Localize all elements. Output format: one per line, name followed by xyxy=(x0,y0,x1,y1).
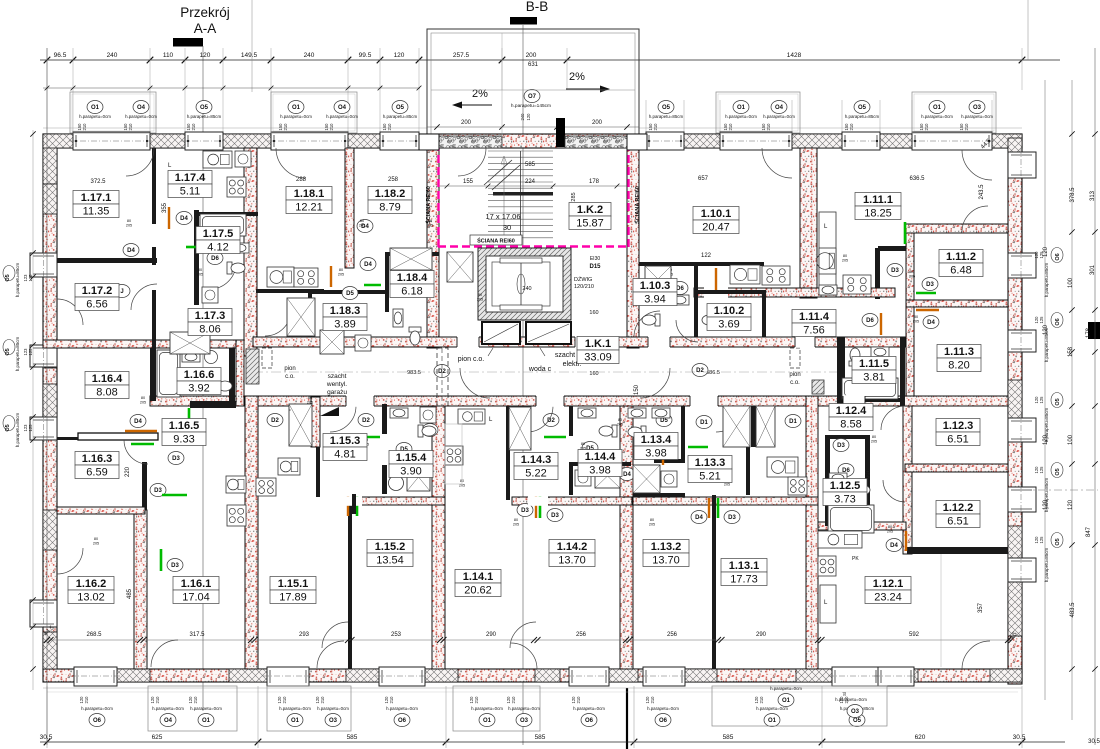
svg-text:293: 293 xyxy=(299,632,310,638)
partition 1.12.5 west xyxy=(825,435,830,526)
door mark green xyxy=(162,494,187,497)
door label D2 xyxy=(434,365,450,378)
svg-text:5.22: 5.22 xyxy=(525,468,546,480)
elevator car xyxy=(486,256,563,312)
svg-text:200: 200 xyxy=(526,52,537,59)
svg-text:8.08: 8.08 xyxy=(96,387,117,399)
wall between 1.11.1 and 1.11.2 xyxy=(906,228,914,406)
exterior bottom wall xyxy=(43,669,1022,682)
svg-text:h.parapetu=85cm: h.parapetu=85cm xyxy=(383,114,418,119)
room label 1.17.1 xyxy=(73,191,119,218)
svg-text:B-B: B-B xyxy=(526,0,549,14)
svg-text:4.81: 4.81 xyxy=(334,449,355,461)
room label 1.14.1 xyxy=(455,570,501,597)
door label D2 xyxy=(692,364,708,377)
door mark green xyxy=(688,446,708,449)
room label 1.18.2 xyxy=(368,187,412,214)
svg-text:125: 125 xyxy=(28,424,33,432)
svg-text:A-A: A-A xyxy=(194,21,217,36)
svg-text:205: 205 xyxy=(140,401,146,405)
room label 1.10.3 xyxy=(633,279,677,306)
svg-text:357: 357 xyxy=(978,602,984,613)
svg-text:h.parapetu=0cm: h.parapetu=0cm xyxy=(190,706,222,711)
svg-text:1.11.2: 1.11.2 xyxy=(946,251,976,263)
svg-text:120: 120 xyxy=(394,52,405,59)
partition 1.11 kitchen jog h xyxy=(878,246,909,251)
door label J xyxy=(114,285,130,298)
svg-text:125: 125 xyxy=(28,274,33,282)
svg-text:210: 210 xyxy=(155,696,160,704)
svg-text:O1: O1 xyxy=(202,718,211,724)
svg-text:5.11: 5.11 xyxy=(180,186,201,198)
room label 1.12.2 xyxy=(936,501,980,528)
partition 1.15.3 east lower xyxy=(382,465,387,494)
svg-text:257.5: 257.5 xyxy=(453,52,470,59)
svg-text:17.73: 17.73 xyxy=(730,574,758,586)
door arc 5 xyxy=(57,299,83,325)
door arc 1 xyxy=(276,148,306,178)
svg-text:6.59: 6.59 xyxy=(86,467,107,479)
wall wall above 1.16.2 xyxy=(57,507,145,514)
room label 1.14.4 xyxy=(578,450,622,477)
svg-text:205: 205 xyxy=(359,224,365,228)
svg-text:12.21: 12.21 xyxy=(295,202,323,214)
svg-text:1.17.4: 1.17.4 xyxy=(175,172,206,184)
svg-text:6.51: 6.51 xyxy=(947,516,968,528)
svg-text:4.12: 4.12 xyxy=(207,242,228,254)
svg-text:657: 657 xyxy=(698,176,709,182)
partition 1.18.1 south xyxy=(256,289,324,293)
entry door leaf 1.15 xyxy=(320,407,339,416)
svg-text:120/210: 120/210 xyxy=(574,284,594,290)
door arc 12 xyxy=(330,406,356,432)
wall wall above 1.12.1 left xyxy=(818,522,906,530)
svg-text:J: J xyxy=(120,289,123,295)
door mark green xyxy=(916,292,936,295)
door arc 13 xyxy=(151,640,178,667)
pion co dashed small left xyxy=(262,348,272,368)
wall between 1.16.2 and 1.16.1 xyxy=(134,510,147,669)
svg-text:1.13.4: 1.13.4 xyxy=(641,434,672,446)
sill lines below bottom wall xyxy=(43,687,1022,689)
partition 1.16.3 east zig xyxy=(142,462,147,510)
partition 1.10.2 north xyxy=(698,290,762,294)
svg-text:O7: O7 xyxy=(528,94,537,100)
door gap wall above 1.15.2 xyxy=(344,496,362,506)
svg-text:1.12.4: 1.12.4 xyxy=(836,405,867,417)
corridor top wall door gaps xyxy=(457,336,479,348)
partition 1.14.3 east upper xyxy=(569,406,573,436)
kitchen 1.10.1 xyxy=(730,265,760,284)
svg-text:D4: D4 xyxy=(127,248,135,254)
svg-text:EI30: EI30 xyxy=(590,256,601,262)
room label 1.13.1 xyxy=(721,559,767,586)
window left O5 2 xyxy=(30,345,57,367)
svg-text:983.5: 983.5 xyxy=(407,370,421,376)
wall between 1.12.5 and 1.12.3 xyxy=(903,406,912,554)
svg-text:205: 205 xyxy=(871,440,877,444)
partition door jamb 1.15.2 xyxy=(352,494,356,514)
corridor center dash line xyxy=(253,371,837,373)
svg-text:1.13.1: 1.13.1 xyxy=(729,560,760,572)
entry door leaf pion 1.12 xyxy=(812,380,824,394)
svg-text:pion: pion xyxy=(789,372,800,378)
svg-text:pion c.o.: pion c.o. xyxy=(458,356,485,363)
svg-text:h.parapetu=85cm: h.parapetu=85cm xyxy=(1044,548,1049,583)
section marker right xyxy=(1088,322,1100,339)
svg-text:1.15.4: 1.15.4 xyxy=(396,452,427,464)
svg-text:3.81: 3.81 xyxy=(863,372,884,384)
window labels bottom right pair xyxy=(712,686,887,726)
svg-text:80: 80 xyxy=(478,293,482,297)
door label D3 xyxy=(167,559,183,572)
room label 1.12.4 xyxy=(829,404,873,431)
shower stair hall xyxy=(447,252,473,282)
room label 1.11.1 xyxy=(855,193,901,220)
bath 1.16.4 xyxy=(157,350,180,397)
svg-text:80: 80 xyxy=(843,254,847,258)
svg-text:O5: O5 xyxy=(1055,398,1061,405)
svg-text:210: 210 xyxy=(728,123,733,131)
door label D4 xyxy=(360,258,376,271)
room label 1.11.2 xyxy=(939,250,983,277)
svg-text:18.25: 18.25 xyxy=(864,208,892,220)
svg-text:1.16.1: 1.16.1 xyxy=(181,578,212,590)
svg-text:210: 210 xyxy=(191,123,196,131)
svg-text:80: 80 xyxy=(127,219,131,223)
svg-text:D5: D5 xyxy=(346,291,354,297)
svg-text:1.18.2: 1.18.2 xyxy=(375,188,406,200)
terrace outline xyxy=(427,29,639,136)
wall pier 1.15 entry xyxy=(311,397,320,447)
partition 1.13.1 entry wall xyxy=(751,406,756,447)
svg-text:1.14.3: 1.14.3 xyxy=(521,454,552,466)
svg-text:125: 125 xyxy=(1039,251,1044,259)
room label 1.18.1 xyxy=(286,187,332,214)
svg-text:szacht: szacht xyxy=(328,373,347,380)
partition 1.18.4 west xyxy=(385,252,389,312)
sill lines above top wall xyxy=(43,127,427,129)
window O1/O4 top 2 xyxy=(271,132,348,150)
right window label O6 xyxy=(1051,248,1063,263)
right window label O5 xyxy=(1051,393,1063,408)
door label D4 xyxy=(849,504,865,517)
svg-text:13.02: 13.02 xyxy=(77,592,105,604)
axis dashdot right xyxy=(1022,489,1098,491)
svg-text:125: 125 xyxy=(1039,536,1044,544)
window labels top right O5 xyxy=(658,101,674,114)
svg-text:O6: O6 xyxy=(659,718,668,724)
room label 1.17.2 xyxy=(75,284,119,311)
stair landing bar xyxy=(493,192,553,196)
partition 1.15.1 east xyxy=(348,500,352,669)
svg-text:483.5: 483.5 xyxy=(1070,602,1076,618)
svg-text:13.54: 13.54 xyxy=(376,555,404,567)
partition 1.15 kitchen east xyxy=(316,447,320,497)
svg-text:110: 110 xyxy=(163,52,174,59)
svg-text:80: 80 xyxy=(339,268,343,272)
svg-text:205: 205 xyxy=(724,483,730,487)
top dim line 2 xyxy=(43,87,420,89)
svg-text:O1: O1 xyxy=(483,718,492,724)
bottom dim line 1 xyxy=(40,741,1065,743)
door arc 4 xyxy=(962,150,992,180)
window bottom right 2 xyxy=(878,667,914,686)
svg-text:h.parapetu=0cm: h.parapetu=0cm xyxy=(508,706,540,711)
window left corner xyxy=(30,600,57,627)
svg-text:160: 160 xyxy=(589,310,598,316)
svg-text:30.5: 30.5 xyxy=(1013,734,1026,741)
wall between 1.18.1 and 1.18.2 xyxy=(345,148,354,268)
wall stair west xyxy=(427,140,439,348)
room label 1.17.5 xyxy=(196,227,240,254)
wall wall between 1.12.3 and 1.12.2 xyxy=(905,464,1008,472)
svg-text:D1: D1 xyxy=(700,420,708,426)
svg-text:D3: D3 xyxy=(891,268,899,274)
partition 1.12.5 east xyxy=(865,435,870,526)
exterior right wall xyxy=(1008,134,1022,684)
door label D3 xyxy=(887,264,903,277)
svg-text:205: 205 xyxy=(649,523,655,527)
room label 1.15.1 xyxy=(270,577,316,604)
svg-text:1.10.3: 1.10.3 xyxy=(640,280,671,292)
door mark green xyxy=(544,436,566,439)
svg-text:h.parapetu=85cm: h.parapetu=85cm xyxy=(1044,478,1049,513)
svg-text:210: 210 xyxy=(283,123,288,131)
door mark green xyxy=(160,549,163,571)
svg-text:210: 210 xyxy=(389,696,394,704)
svg-text:O3: O3 xyxy=(973,105,982,111)
svg-text:7.56: 7.56 xyxy=(803,325,824,337)
bath 1.14 xyxy=(578,408,596,418)
svg-text:80: 80 xyxy=(514,518,518,522)
room label 1.15.3 xyxy=(323,434,367,461)
svg-text:O6: O6 xyxy=(398,718,407,724)
svg-text:6.18: 6.18 xyxy=(401,286,422,298)
door label D3 xyxy=(922,278,938,291)
right window label O5 xyxy=(1051,533,1063,548)
svg-text:D3: D3 xyxy=(728,515,736,521)
door label D3 xyxy=(168,452,184,465)
svg-text:125: 125 xyxy=(1039,316,1044,324)
svg-text:h.parapetu=0cm: h.parapetu=0cm xyxy=(152,706,184,711)
door arc 17 xyxy=(124,440,148,464)
terrace window label O7 xyxy=(524,90,540,103)
svg-text:1.12.3: 1.12.3 xyxy=(943,420,974,432)
partition 1.16.6 east xyxy=(229,348,235,401)
svg-text:224: 224 xyxy=(525,179,536,185)
room label 1.11.4 xyxy=(792,310,836,337)
door mark orange xyxy=(662,448,664,465)
door arc 21 xyxy=(510,622,536,648)
wall between 1.10 and 1.11 xyxy=(800,148,817,298)
svg-text:D3: D3 xyxy=(172,456,180,462)
fire wall dashed magenta right xyxy=(627,143,629,247)
svg-text:1.16.4: 1.16.4 xyxy=(92,373,123,385)
svg-text:h.parapetu=85cm: h.parapetu=85cm xyxy=(15,337,20,372)
shafts below elevator xyxy=(482,322,520,344)
svg-text:O1: O1 xyxy=(768,718,777,724)
svg-text:O5: O5 xyxy=(200,105,209,111)
door arc 20 xyxy=(322,622,348,648)
door mark orange xyxy=(905,531,907,551)
svg-text:290: 290 xyxy=(756,632,767,638)
stair dim row xyxy=(439,185,627,187)
svg-text:ŚCIANA REI60: ŚCIANA REI60 xyxy=(634,186,641,224)
door arc 0 xyxy=(126,148,154,176)
svg-text:13.70: 13.70 xyxy=(558,555,586,567)
svg-text:D2: D2 xyxy=(362,418,370,424)
door arc 7 xyxy=(131,284,157,310)
svg-text:6.51: 6.51 xyxy=(947,434,968,446)
svg-text:1.17.3: 1.17.3 xyxy=(195,310,226,322)
corridor top wall left part xyxy=(43,340,244,348)
door label D4 xyxy=(691,511,707,524)
garage vent shaft dashed xyxy=(437,348,448,406)
door mark orange xyxy=(916,309,939,311)
svg-text:1.16.5: 1.16.5 xyxy=(169,420,200,432)
door arc 23 xyxy=(962,641,990,669)
svg-text:1.11.3: 1.11.3 xyxy=(944,346,974,358)
svg-text:h.parapetu=85cm: h.parapetu=85cm xyxy=(15,413,20,448)
door mark orange xyxy=(535,496,537,518)
svg-text:h.parapetu=0cm: h.parapetu=0cm xyxy=(763,114,795,119)
svg-text:200: 200 xyxy=(592,120,603,126)
svg-text:80: 80 xyxy=(141,396,145,400)
svg-text:c.o.: c.o. xyxy=(285,374,295,380)
svg-text:80: 80 xyxy=(910,270,914,274)
window labels bottom group 3 xyxy=(453,686,540,731)
door label D4 xyxy=(886,539,902,552)
svg-text:h.parapetu=0cm: h.parapetu=0cm xyxy=(386,706,418,711)
svg-text:D4: D4 xyxy=(623,472,631,478)
svg-text:625: 625 xyxy=(152,734,163,741)
svg-text:220: 220 xyxy=(125,466,131,477)
svg-text:205: 205 xyxy=(338,273,344,277)
svg-text:9.33: 9.33 xyxy=(173,434,194,446)
svg-text:h.parapetu=0cm: h.parapetu=0cm xyxy=(125,114,157,119)
window O5 top right 2 xyxy=(842,132,880,150)
svg-text:200: 200 xyxy=(461,120,472,126)
wall pier right of 1.16.6 xyxy=(236,340,244,406)
svg-text:h.parapetu=0cm: h.parapetu=0cm xyxy=(279,706,311,711)
svg-text:1.18.1: 1.18.1 xyxy=(294,188,325,200)
window bottom O6 1 xyxy=(74,667,117,686)
section line B-B bottom stub xyxy=(626,688,628,749)
window labels top O5 2 xyxy=(392,101,408,114)
svg-text:h.parapetu=85cm: h.parapetu=85cm xyxy=(187,114,222,119)
svg-text:485: 485 xyxy=(127,588,133,599)
wall between 1.13 and 1.12 xyxy=(806,396,818,669)
corridor bottom wall door gaps xyxy=(346,395,374,407)
svg-text:8.20: 8.20 xyxy=(948,360,969,372)
svg-text:h.parapetu=0cm: h.parapetu=0cm xyxy=(835,697,867,702)
svg-text:3.94: 3.94 xyxy=(644,294,665,306)
door label D5 xyxy=(342,287,358,300)
terrace insulation band right xyxy=(565,136,627,148)
svg-text:DŹWIG: DŹWIG xyxy=(574,276,592,283)
partition 1.14 hall west xyxy=(506,406,510,500)
svg-text:80: 80 xyxy=(360,219,364,223)
svg-text:1.K.1: 1.K.1 xyxy=(585,338,611,350)
svg-text:h.parapetu=0cm: h.parapetu=0cm xyxy=(756,706,788,711)
svg-text:1.14.4: 1.14.4 xyxy=(585,451,616,463)
door label D6 xyxy=(838,464,854,477)
section line A-A xyxy=(202,46,204,710)
wardrobe corridor 1.16.5 xyxy=(289,409,291,411)
svg-text:1.18.3: 1.18.3 xyxy=(330,305,361,317)
wall wall above 1.13.2 xyxy=(633,497,818,505)
kitchen 1.16 xyxy=(226,476,246,493)
svg-text:301: 301 xyxy=(1090,264,1096,275)
svg-text:313: 313 xyxy=(1090,190,1096,201)
top dimension line xyxy=(40,59,1060,61)
svg-text:D4: D4 xyxy=(927,320,935,326)
door arc 6 xyxy=(210,263,236,289)
svg-text:O1: O1 xyxy=(292,105,301,111)
svg-text:290: 290 xyxy=(486,632,497,638)
door label D4 xyxy=(619,468,635,481)
door label D1 xyxy=(696,416,712,429)
partition wall above 1.12.1 right xyxy=(907,547,1008,554)
svg-text:O5: O5 xyxy=(1055,538,1061,545)
svg-text:122: 122 xyxy=(701,253,712,259)
svg-text:125: 125 xyxy=(28,348,33,356)
wall between 1.17 and 1.18 xyxy=(244,148,257,356)
svg-text:h.parapetu=85cm: h.parapetu=85cm xyxy=(15,263,20,298)
svg-text:D3: D3 xyxy=(926,282,934,288)
room label 1.16.1 xyxy=(173,577,219,604)
svg-text:240: 240 xyxy=(522,286,531,292)
window O1/O4 top right xyxy=(720,132,792,150)
right window label O6 xyxy=(1051,313,1063,328)
bath 1.10.2 xyxy=(702,314,720,326)
door mark green xyxy=(904,222,907,244)
exterior left wall xyxy=(43,134,57,669)
svg-text:355: 355 xyxy=(162,202,168,213)
window right 2 xyxy=(1008,253,1036,278)
door arc 25 xyxy=(883,480,905,502)
kitchen 1.18 xyxy=(267,267,294,287)
svg-text:D2: D2 xyxy=(438,369,446,375)
svg-text:pion: pion xyxy=(284,366,295,372)
svg-text:158: 158 xyxy=(1068,346,1074,357)
room label 1.14.2 xyxy=(549,540,595,567)
svg-text:1.11.5: 1.11.5 xyxy=(859,358,889,370)
room label 1.12.1 xyxy=(865,577,911,604)
window labels bottom group 2 xyxy=(267,686,351,731)
svg-text:ŚCIANA REI60: ŚCIANA REI60 xyxy=(477,238,515,245)
svg-text:D6: D6 xyxy=(866,318,874,324)
room label 1.16.6 xyxy=(177,368,221,395)
svg-text:20.47: 20.47 xyxy=(702,222,730,234)
door mark orange xyxy=(330,266,332,287)
right window label O5 xyxy=(1051,463,1063,478)
svg-text:1.17.2: 1.17.2 xyxy=(82,285,113,297)
svg-text:1.12.2: 1.12.2 xyxy=(943,502,974,514)
svg-text:1.16.3: 1.16.3 xyxy=(82,453,113,465)
partition 1.17.5 west xyxy=(194,210,199,305)
window labels top right group xyxy=(716,92,800,133)
svg-text:D4: D4 xyxy=(890,543,898,549)
door label D4 xyxy=(123,244,139,257)
svg-text:D1: D1 xyxy=(789,419,797,425)
partition 1.16.3 north stub xyxy=(57,437,78,440)
wall right of corridor xyxy=(836,336,838,338)
svg-text:3.90: 3.90 xyxy=(400,466,421,478)
svg-text:3.98: 3.98 xyxy=(645,448,666,460)
room label 1.16.5 xyxy=(162,419,206,446)
